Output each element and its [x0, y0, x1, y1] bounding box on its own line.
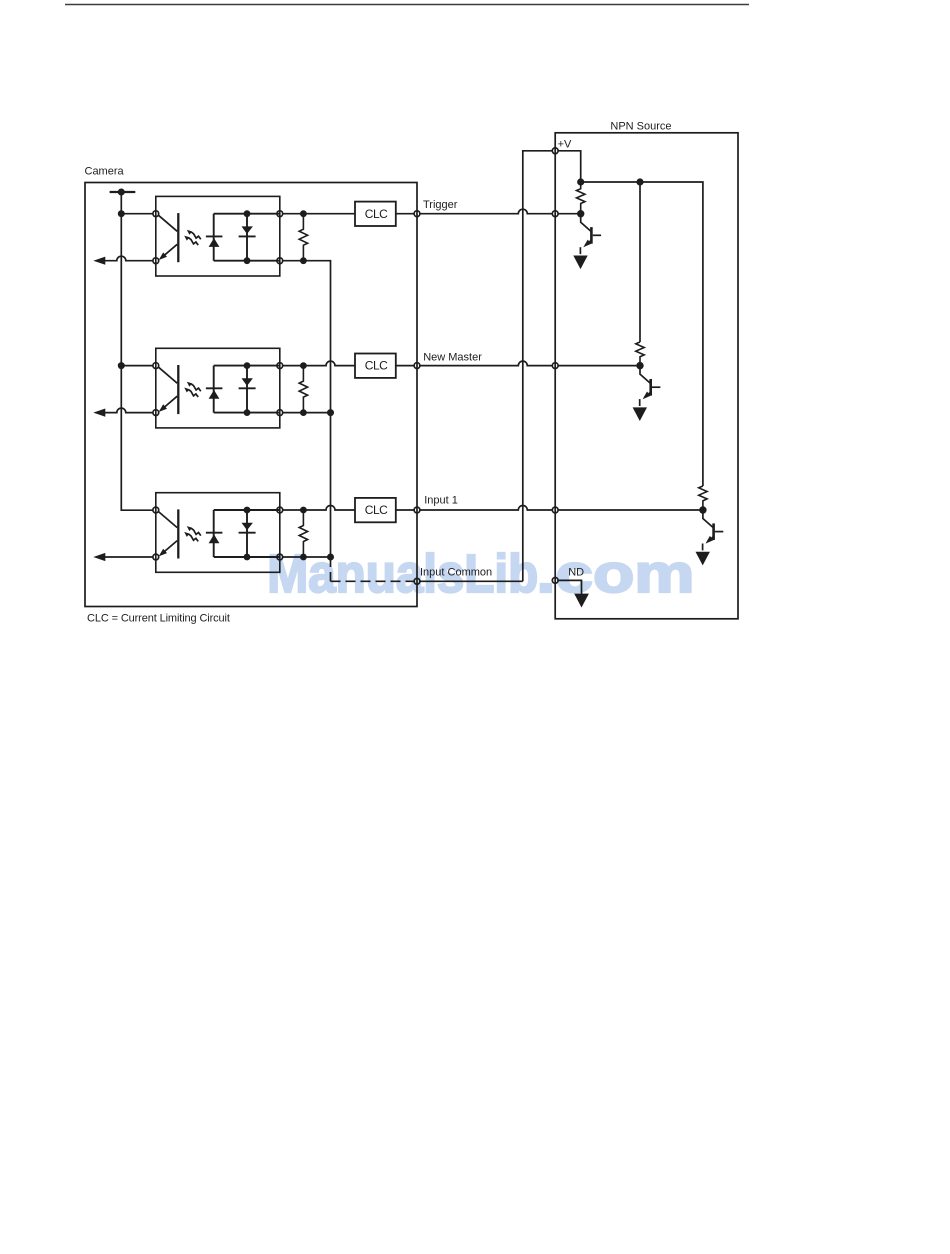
svg-text:CLC = Current Limiting Circuit: CLC = Current Limiting Circuit: [87, 613, 230, 625]
svg-text:Camera: Camera: [85, 166, 125, 178]
svg-text:Input 1: Input 1: [424, 495, 458, 507]
svg-text:Input Common: Input Common: [420, 567, 492, 579]
svg-text:ManualsLib: ManualsLib: [267, 544, 538, 604]
svg-text:ND: ND: [568, 566, 584, 578]
svg-text:.com: .com: [537, 544, 695, 604]
svg-text:New Master: New Master: [423, 352, 482, 364]
svg-text:NPN Source: NPN Source: [610, 120, 671, 132]
svg-text:+V: +V: [558, 139, 572, 151]
svg-text:Trigger: Trigger: [423, 199, 458, 211]
svg-text:CLC: CLC: [365, 207, 388, 221]
